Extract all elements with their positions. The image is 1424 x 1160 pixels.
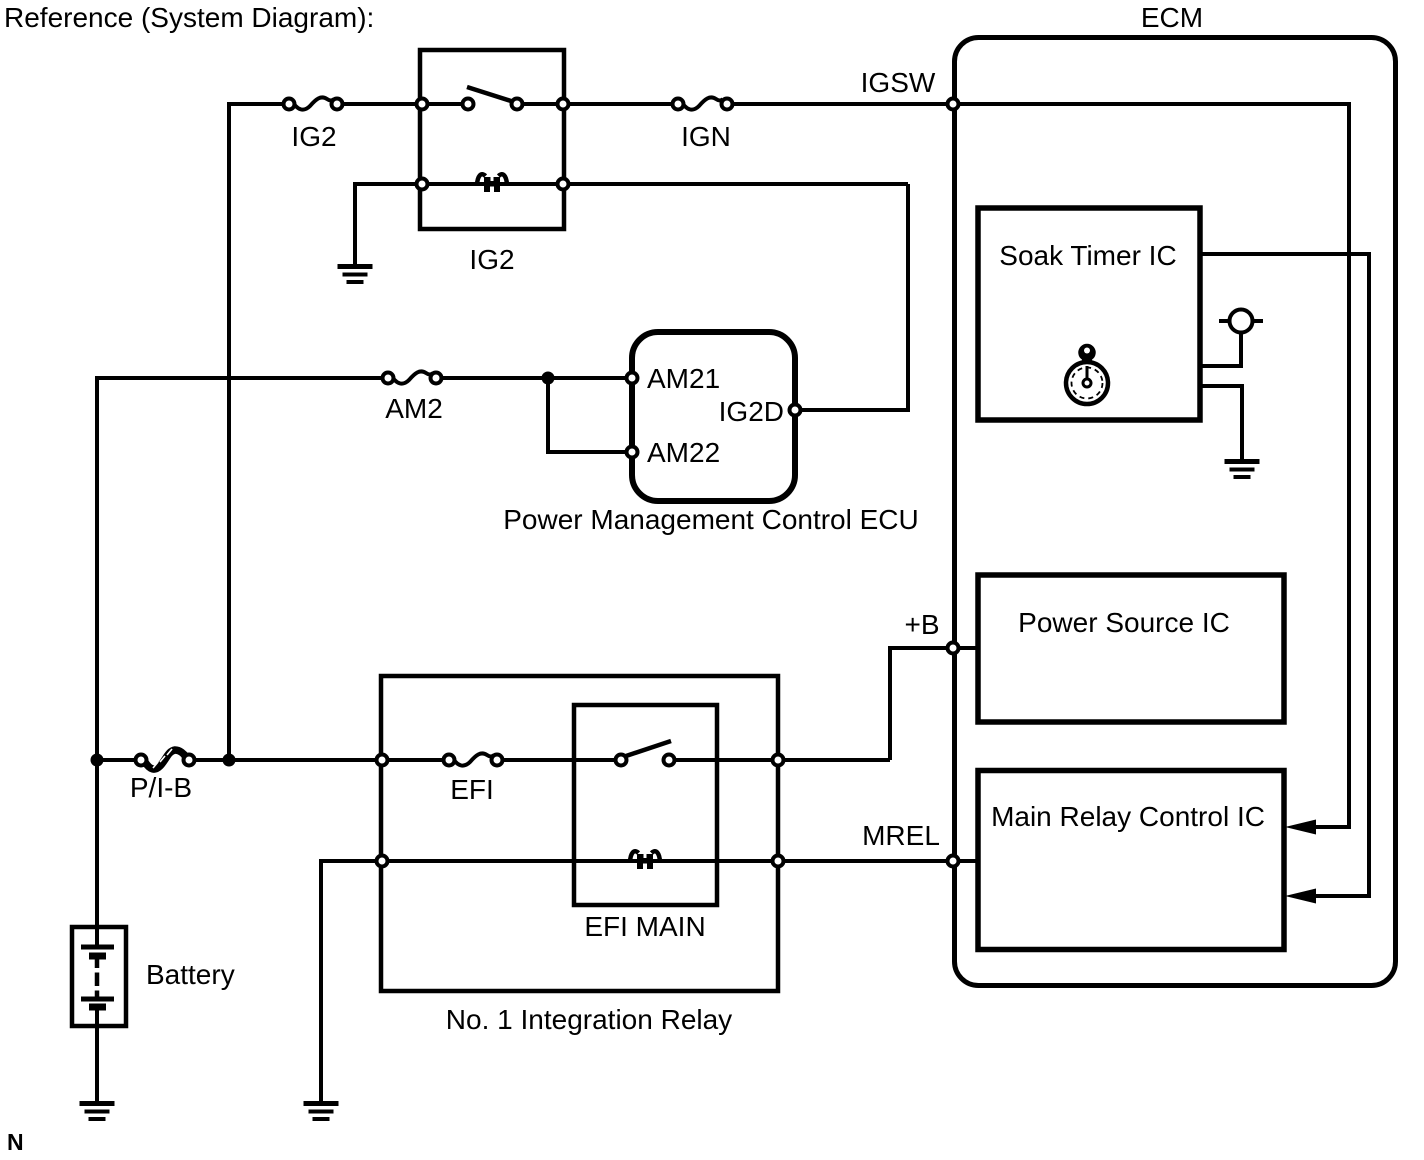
ground (ignition switch coil) bbox=[338, 264, 373, 284]
EFI MAIN switch blade bbox=[626, 741, 671, 756]
wire: Soak Timer output run to Main Relay Control IC lower arrow bbox=[1200, 254, 1369, 896]
fuse AM2 bbox=[390, 371, 433, 383]
svg-text:MREL: MREL bbox=[862, 820, 940, 851]
wire: top row from left riser to IG2 fuse bbox=[229, 104, 291, 760]
ignition switch blade bbox=[467, 87, 511, 101]
svg-text:IG2: IG2 bbox=[291, 121, 336, 152]
pin IGSW bbox=[948, 99, 959, 110]
pull-up terminal circle bbox=[1230, 310, 1253, 333]
battery cell 2 short plate bbox=[89, 1004, 106, 1011]
battery dashed link bbox=[95, 960, 100, 998]
junction dot AM2 branch bbox=[542, 372, 555, 385]
EFI MAIN relay coil bbox=[630, 851, 660, 869]
svg-text:Main Relay Control IC: Main Relay Control IC bbox=[991, 801, 1265, 832]
wire: AM2 fuse to AM21 pin bbox=[434, 376, 632, 380]
svg-text:N: N bbox=[7, 1129, 24, 1155]
fuse IG2 bbox=[291, 97, 334, 109]
ground (MREL) bbox=[304, 1101, 339, 1121]
pin AM21 bbox=[627, 373, 638, 384]
wire: P/I-B row battery to fuse bbox=[97, 758, 143, 762]
ground (soak timer) bbox=[1225, 459, 1260, 479]
Soak Timer IC box bbox=[978, 208, 1200, 420]
Main Relay Control IC box bbox=[978, 771, 1284, 950]
Power Management Control ECU box bbox=[632, 332, 795, 501]
fuse EFI bbox=[451, 753, 494, 765]
wire: soak timer ground lead bbox=[1200, 386, 1242, 459]
wire: IG2 fuse to ignition switch left contact bbox=[335, 102, 468, 106]
battery cell 1 short plate bbox=[89, 953, 106, 960]
svg-text:AM22: AM22 bbox=[647, 437, 720, 468]
fuse IGN bbox=[680, 97, 723, 109]
svg-text:Power Source IC: Power Source IC bbox=[1018, 607, 1230, 638]
svg-text:EFI MAIN: EFI MAIN bbox=[584, 911, 705, 942]
svg-text:+B: +B bbox=[904, 609, 939, 640]
arrow into Main Relay Control IC (upper, from IGSW line) bbox=[1285, 820, 1316, 835]
svg-text:Battery: Battery bbox=[146, 959, 235, 990]
junction dot P/I-B left bbox=[91, 754, 104, 767]
wire: ignition switch right contact to IGN fuse bbox=[517, 102, 680, 106]
pin AM22 bbox=[627, 447, 638, 458]
battery box bbox=[72, 927, 126, 1026]
ECM box bbox=[955, 38, 1396, 986]
wire: +B riser and lead into Power Source IC bbox=[890, 648, 978, 760]
wire: EFI fuse to EFI MAIN left contact bbox=[495, 758, 621, 762]
svg-text:EFI: EFI bbox=[450, 774, 494, 805]
EFI MAIN relay box bbox=[574, 705, 717, 905]
wire: AM22 branch bbox=[548, 378, 632, 452]
wire: battery top lead bbox=[95, 926, 99, 946]
No.1 relay box pins bbox=[377, 755, 388, 766]
ignition switch contacts bbox=[463, 99, 474, 110]
svg-text:IG2D: IG2D bbox=[719, 396, 784, 427]
svg-text:IGN: IGN bbox=[681, 121, 731, 152]
svg-text:No. 1 Integration Relay: No. 1 Integration Relay bbox=[446, 1004, 732, 1035]
pin IG2D bbox=[790, 405, 801, 416]
wire: P/I-B fuse to EFI fuse bbox=[187, 758, 451, 762]
junction dot P/I-B right bbox=[223, 754, 236, 767]
svg-text:Reference (System Diagram):: Reference (System Diagram): bbox=[4, 2, 374, 33]
wire: MREL row through relay coil and ground drop bbox=[321, 861, 978, 1101]
battery cell 2 long plate bbox=[81, 997, 114, 1002]
svg-text:ECM: ECM bbox=[1141, 2, 1203, 33]
svg-text:IG2: IG2 bbox=[469, 244, 514, 275]
wire: IGN fuse to ECM IGSW pin bbox=[725, 102, 953, 106]
Power Source IC box bbox=[978, 575, 1284, 722]
ignition switch box IG2 bbox=[420, 50, 564, 229]
pin +B bbox=[948, 643, 959, 654]
wire: riser x=908 from coil row down to IG2D pin lead bbox=[795, 184, 908, 410]
wire: AM2 row from left riser to fuse bbox=[97, 378, 390, 926]
battery cell 1 long plate bbox=[81, 945, 114, 950]
svg-text:AM21: AM21 bbox=[647, 363, 720, 394]
fusible link P/I-B bbox=[145, 750, 186, 769]
ignition switch box pins bbox=[417, 99, 428, 110]
EFI MAIN contacts bbox=[616, 755, 627, 766]
ground (battery) bbox=[80, 1101, 115, 1121]
wire: EFI MAIN right contact to +B riser bbox=[669, 758, 890, 762]
svg-text:Soak Timer IC: Soak Timer IC bbox=[999, 240, 1176, 271]
wire: soak timer supply lead bbox=[1200, 332, 1241, 366]
svg-text:AM2: AM2 bbox=[385, 393, 443, 424]
wire: stub to ground from ignition switch coil bbox=[355, 184, 908, 264]
wire: IGSW internal run to Main Relay Control IC upper arrow bbox=[953, 104, 1349, 827]
wire: battery bottom lead to ground bbox=[95, 1009, 99, 1101]
svg-text:Power Management Control ECU: Power Management Control ECU bbox=[503, 504, 919, 535]
svg-text:IGSW: IGSW bbox=[861, 67, 936, 98]
wire: pull-up terminal horizontal bar bbox=[1219, 319, 1263, 323]
No. 1 Integration Relay box bbox=[381, 676, 778, 991]
pin MREL bbox=[948, 856, 959, 867]
svg-text:P/I-B: P/I-B bbox=[130, 772, 192, 803]
ignition switch coil bbox=[477, 174, 507, 192]
arrow into Main Relay Control IC (lower, from Soak Timer line) bbox=[1285, 889, 1316, 904]
stopwatch icon bbox=[1066, 346, 1108, 405]
